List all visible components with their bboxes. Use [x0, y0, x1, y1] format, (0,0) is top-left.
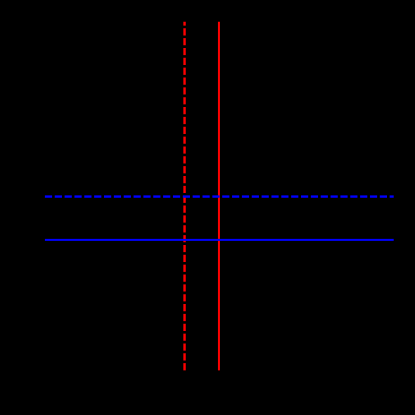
solid red vertical line (axvline) [218, 22, 220, 371]
dashed red vertical line (axvline, drawn bottom-to-top so dash ends flush at bottom) [183, 22, 185, 371]
dashed blue horizontal line (axhline, dash starts flush at left) [45, 195, 394, 197]
solid blue horizontal line (axhline) [45, 239, 394, 241]
